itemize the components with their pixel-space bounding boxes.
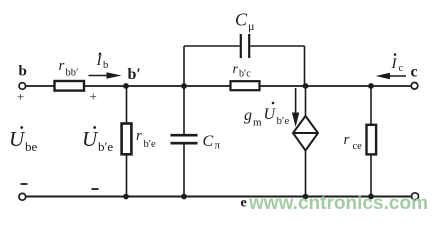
svg-text:r: r: [136, 128, 142, 144]
svg-text:r: r: [233, 62, 239, 77]
wire top rail: b to r_bb': [26, 85, 55, 87]
node at top of r_ce: [368, 83, 374, 89]
svg-text:g: g: [244, 107, 252, 124]
capacitor C_pi plate 2: [171, 142, 198, 145]
svg-text:b: b: [103, 60, 108, 71]
current source g_m U_b'e (diamond): [293, 116, 318, 151]
svg-text:C: C: [235, 10, 248, 30]
svg-text:U: U: [9, 127, 26, 151]
terminal b (open circle): [19, 83, 26, 90]
svg-text:c: c: [411, 64, 418, 81]
svg-text:I: I: [96, 53, 103, 69]
node at top of current source: [303, 83, 309, 89]
svg-text:be: be: [25, 139, 38, 154]
svg-text:b: b: [19, 64, 27, 80]
wire from r_b'e down to bottom rail: [126, 154, 128, 196]
svg-text:I: I: [391, 56, 398, 72]
wire top rail: r_ce node to terminal c: [371, 85, 412, 87]
svg-text:U: U: [82, 127, 99, 151]
wire from node down to r_ce: [370, 86, 372, 125]
wire C_mu branch right vertical: [304, 46, 306, 86]
wire top rail: r_bb' to node b': [84, 85, 126, 87]
wire C_mu branch right horizontal: [250, 45, 304, 47]
node bottom of r_b'e: [123, 194, 129, 200]
wire from current source down to bottom rail: [305, 151, 307, 197]
wire top rail: node b' to junction at C_pi: [126, 85, 184, 87]
svg-text:π: π: [215, 140, 221, 152]
minus sign for U_b'e: [92, 188, 99, 190]
svg-text:e: e: [241, 196, 247, 211]
svg-text:b′e: b′e: [144, 139, 157, 150]
wire from node down to current source: [305, 86, 307, 116]
node b': [123, 83, 129, 89]
svg-text:b′e: b′e: [98, 139, 113, 154]
wire top rail: junction to r_b'c: [184, 85, 231, 87]
minus sign at bottom-left terminal: [21, 183, 28, 185]
wire top rail: r_b'c to current-source node: [260, 85, 306, 87]
node bottom of r_ce: [368, 194, 374, 200]
svg-text:μ: μ: [248, 19, 254, 33]
wire top rail: current-source node to r_ce node: [306, 85, 372, 87]
wire from junction down to C_pi: [183, 86, 185, 134]
svg-text:ce: ce: [353, 141, 363, 152]
capacitor C_pi plate 1: [171, 134, 198, 137]
svg-text:r: r: [59, 58, 65, 74]
wire C_mu branch left vertical: [183, 46, 185, 86]
current arrow I_b: [89, 75, 113, 77]
svg-text:bb′: bb′: [66, 68, 79, 79]
svg-text:m: m: [253, 117, 262, 129]
svg-text:+: +: [90, 89, 97, 104]
terminal bottom-right (open circle): [412, 193, 419, 200]
terminal c (open circle): [411, 83, 418, 90]
svg-text:b′c: b′c: [239, 69, 251, 80]
svg-text:+: +: [17, 89, 24, 104]
current arrow I_c (pointing left): [385, 75, 406, 77]
capacitor C_mu plate 1: [240, 34, 242, 58]
svg-text:r: r: [344, 132, 350, 148]
node junction top C_pi: [181, 83, 187, 89]
node bottom of C_pi: [181, 194, 187, 200]
svg-text:b′: b′: [128, 66, 141, 83]
current source direction arrow (down): [295, 88, 297, 115]
wire from C_pi down to bottom rail: [183, 144, 185, 196]
svg-text:www.cntronics.com: www.cntronics.com: [248, 193, 428, 214]
resistor r_ce: [367, 125, 377, 155]
resistor r_b'e: [122, 124, 132, 155]
svg-text:c: c: [399, 63, 404, 74]
wire from r_ce down to bottom rail: [370, 154, 372, 196]
node bottom of current source: [303, 194, 309, 200]
svg-text:b′e: b′e: [277, 115, 290, 127]
wire C_mu branch left horizontal: [184, 45, 240, 47]
wire bottom rail: [26, 196, 412, 198]
svg-text:U: U: [264, 106, 277, 123]
svg-text:C: C: [203, 133, 214, 150]
resistor r_b'c: [231, 81, 260, 90]
capacitor C_mu plate 2: [248, 34, 250, 58]
wire from b' down to r_b'e: [126, 86, 128, 124]
terminal bottom-left (open circle): [19, 193, 26, 200]
resistor r_bb': [55, 81, 85, 91]
